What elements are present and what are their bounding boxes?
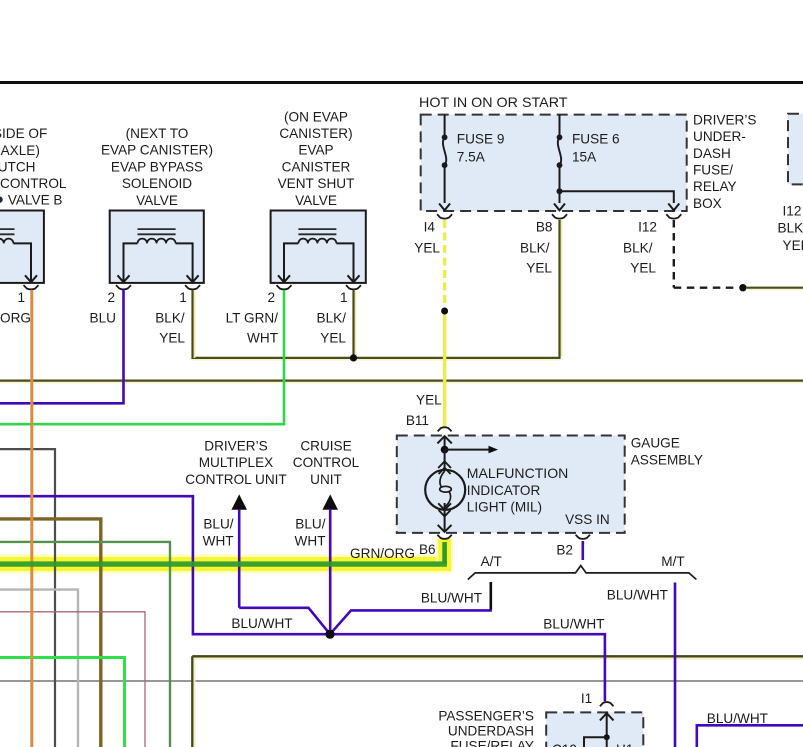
fuse F9 pin arrow at I4 <box>439 204 450 211</box>
solenoid valve box2 pin arrows <box>118 275 130 282</box>
svg-text:1: 1 <box>340 290 348 305</box>
wire GRN dark left corner <box>0 542 170 747</box>
wire BLK/YEL box3 pin1 vertical <box>354 290 356 357</box>
svg-text:7.5A: 7.5A <box>457 150 486 165</box>
svg-text:UTCH: UTCH <box>0 159 36 174</box>
svg-text:YEL: YEL <box>159 331 185 346</box>
svg-text:BLU: BLU <box>90 311 116 326</box>
svg-text:DASH: DASH <box>693 146 731 161</box>
junction at B11 <box>441 446 449 454</box>
svg-text:BLU/: BLU/ <box>203 517 233 532</box>
solenoid valve box2 EVAP BYPASS SOLENOID VALVE <box>110 211 204 283</box>
wire BLU/WHT multiplex vertical <box>238 509 241 608</box>
svg-text:GAUGE: GAUGE <box>631 436 680 451</box>
svg-text:H1: H1 <box>616 742 633 747</box>
svg-text:ORG: ORG <box>0 311 31 326</box>
junction on fuse F6 wire <box>557 188 563 194</box>
connector cup I1 <box>600 702 614 706</box>
wire BLU stub at B2 <box>581 541 584 560</box>
wire ORG from box1 pin1 <box>30 290 33 747</box>
svg-text:UNDERDASH: UNDERDASH <box>448 724 534 739</box>
svg-text:B8: B8 <box>536 220 553 235</box>
connector cup I12 <box>666 214 681 218</box>
solenoid valve box1 label fragments <box>0 126 67 207</box>
solenoid valve box2 connector cups <box>116 285 131 289</box>
A/T branch black stub <box>489 582 492 610</box>
svg-text:ASSEMBLY: ASSEMBLY <box>631 452 703 467</box>
I1 entry arrow <box>606 713 608 737</box>
terminal chevrons below MIL lamp <box>438 503 451 510</box>
bus bar top line <box>0 81 803 84</box>
wire I12 dashed vertical <box>673 220 675 288</box>
solenoid valve box1 pin 1 connector cup <box>24 285 39 289</box>
svg-text:DRIVER’S: DRIVER’S <box>693 112 756 127</box>
wire GRY dark left corner <box>0 449 55 747</box>
svg-text:2: 2 <box>108 290 116 305</box>
svg-text:FUSE/RELAY: FUSE/RELAY <box>450 739 534 747</box>
svg-text:BLU/WHT: BLU/WHT <box>607 588 668 603</box>
junction dot BLU/WHT <box>325 630 334 639</box>
wire BLU/WHT M/T vertical <box>674 583 677 747</box>
svg-text:VALVE: VALVE <box>295 193 337 208</box>
svg-text:YEL: YEL <box>783 238 803 253</box>
svg-text:BLK/: BLK/ <box>778 221 803 236</box>
svg-text:BLU/WHT: BLU/WHT <box>231 616 292 631</box>
svg-text:FUSE/: FUSE/ <box>693 163 733 178</box>
MIL lamp bulb <box>425 470 465 510</box>
svg-text:YEL: YEL <box>526 261 552 276</box>
junction of box3 BLK/YEL with bus <box>350 354 357 361</box>
solenoid valve box1 internal wire <box>13 243 31 281</box>
fuse box name label <box>693 112 756 210</box>
svg-text:HOT IN ON OR START: HOT IN ON OR START <box>419 95 568 110</box>
svg-text:INDICATOR: INDICATOR <box>467 483 541 498</box>
svg-text:BLK/: BLK/ <box>623 241 653 256</box>
solenoid valve box3 label <box>278 109 355 208</box>
svg-text:BLU/WHT: BLU/WHT <box>707 711 768 726</box>
svg-text:VALVE B: VALVE B <box>8 193 63 208</box>
B11 entry arrow <box>444 436 446 449</box>
wire GRN/ORG green core vertical at B6 <box>442 542 447 564</box>
gauge assembly box <box>397 436 625 533</box>
solenoid valve box3 connector cups <box>277 285 292 289</box>
junction inside passenger box <box>604 734 610 740</box>
fuse F9 wire <box>444 115 446 138</box>
svg-text:B2: B2 <box>556 543 573 558</box>
branch wire inside passenger box <box>584 737 607 747</box>
solenoid valve box3 pin arrows <box>278 275 290 282</box>
fuse F6 wire <box>559 115 561 138</box>
svg-text:WHT: WHT <box>295 534 326 549</box>
svg-text:CANISTER: CANISTER <box>282 159 351 174</box>
svg-text:BLK/: BLK/ <box>317 311 347 326</box>
wire WHT light gray left corner <box>0 590 78 747</box>
branch pin arrow at I12 <box>668 204 679 211</box>
svg-text:UNIT: UNIT <box>310 472 342 487</box>
wire I12 dashed horizontal <box>674 287 736 289</box>
wire BLK/YEL bottom corner vertical <box>192 656 194 747</box>
svg-text:BLU/: BLU/ <box>295 517 325 532</box>
svg-text:EVAP BYPASS: EVAP BYPASS <box>111 159 203 174</box>
svg-text:BLU/WHT: BLU/WHT <box>543 617 604 632</box>
svg-text:I12: I12 <box>638 220 657 235</box>
solenoid valve box3 internal wires <box>284 243 298 281</box>
wire BLU/WHT right horizontal from junction down to I1 <box>330 634 605 701</box>
connector cup I4 <box>437 214 452 218</box>
svg-text:CRUISE: CRUISE <box>300 439 351 454</box>
wire BLK/YEL bottom bus horizontal <box>194 658 803 660</box>
connector cup B6 <box>437 535 451 539</box>
svg-text:BLK/: BLK/ <box>520 241 550 256</box>
wire below MIL lamp <box>444 503 446 532</box>
svg-text:YEL: YEL <box>416 393 442 408</box>
connector cup B2 <box>576 535 590 539</box>
wire BLK/YEL stub to right edge <box>746 288 803 290</box>
wire BLU/WHT cruise vertical <box>329 509 332 634</box>
solenoid valve box2 coil winding <box>138 239 176 244</box>
svg-text:I1: I1 <box>581 691 592 706</box>
wire PNK left corner <box>0 612 145 747</box>
wire BLU/WHT left horizontal <box>0 495 194 498</box>
svg-text:CONTROL: CONTROL <box>293 455 360 470</box>
svg-text:15A: 15A <box>572 150 597 165</box>
svg-text:A/T: A/T <box>481 554 502 569</box>
wire BLU/WHT bottom right corner <box>697 725 803 747</box>
wire BLU/WHT bottom horizontal to junction <box>193 633 330 636</box>
fuse F6 pin arrow at B8 <box>554 204 565 211</box>
junction on I12 wire <box>739 284 746 291</box>
fuse F6 element <box>557 134 563 140</box>
svg-text:(ON EVAP: (ON EVAP <box>284 109 348 124</box>
solenoid valve box3 coil winding <box>298 239 336 244</box>
svg-text:BLK/: BLK/ <box>155 311 185 326</box>
solenoid valve box3 coil core <box>298 229 336 234</box>
svg-text:(NEXT TO: (NEXT TO <box>126 126 189 141</box>
svg-text:LT GRN/: LT GRN/ <box>226 311 279 326</box>
svg-text:BOX: BOX <box>693 196 722 211</box>
svg-text:RELAY: RELAY <box>693 179 737 194</box>
solenoid valve box2 coil core <box>138 229 176 234</box>
svg-text:WHT: WHT <box>203 534 234 549</box>
svg-text:MALFUNCTION: MALFUNCTION <box>467 466 569 481</box>
solenoid valve box1 coil core <box>0 229 15 234</box>
wire BRN left corner <box>0 519 101 747</box>
wire BLK/YEL horizontal from valve boxes to B8 <box>192 358 561 360</box>
second underdash fuse box (cut off at right edge) <box>788 114 803 185</box>
wire BLU/WHT diagonal up right from junction <box>330 610 492 634</box>
svg-text:M/T: M/T <box>661 554 684 569</box>
svg-text:B11: B11 <box>406 413 429 428</box>
svg-text:CONTROL UNIT: CONTROL UNIT <box>185 472 286 487</box>
B6 exit arrow <box>438 525 452 532</box>
A/T M/T split bracket <box>468 566 697 580</box>
wire YEL dashed from I4 <box>443 220 447 311</box>
MIL lamp filament <box>440 471 445 487</box>
svg-text:B6: B6 <box>419 542 436 557</box>
GRN/ORG highlight band vertical at B6 <box>436 539 453 565</box>
svg-text:FUSE 6: FUSE 6 <box>572 132 620 147</box>
svg-text:GRN/ORG: GRN/ORG <box>350 546 415 561</box>
svg-text:MULTIPLEX: MULTIPLEX <box>199 455 274 470</box>
solenoid valve box1 coil winding <box>0 239 13 244</box>
passenger box label <box>438 709 534 747</box>
wire BLU/WHT multiplex horizontal + diagonal to junction <box>239 608 330 634</box>
svg-text:1: 1 <box>179 290 187 305</box>
svg-text:YEL: YEL <box>630 261 656 276</box>
solenoid valve box3 EVAP CANISTER VENT SHUT VALVE <box>271 211 366 283</box>
svg-text:CANISTER): CANISTER) <box>279 126 352 141</box>
svg-text:SIDE OF: SIDE OF <box>0 126 47 141</box>
svg-text:2: 2 <box>268 290 276 305</box>
wire LT GRN/WHT from box3 pin2 <box>0 290 284 424</box>
svg-text:BLU/WHT: BLU/WHT <box>421 591 482 606</box>
solenoid valve box2 label <box>101 126 213 208</box>
wire GRN/ORG green core horizontal <box>0 561 447 566</box>
solenoid valve box2 internal wires <box>124 243 138 281</box>
svg-text:CONTROL: CONTROL <box>0 176 67 191</box>
multiplex unit arrow <box>231 494 247 509</box>
fuse F9 element <box>442 134 448 140</box>
svg-text:PASSENGER’S: PASSENGER’S <box>438 709 534 724</box>
connector cup B11 <box>438 427 452 431</box>
svg-text:VALVE: VALVE <box>136 193 178 208</box>
svg-text:C10: C10 <box>552 742 577 747</box>
cruise control unit label <box>293 439 360 487</box>
svg-text:VENT SHUT: VENT SHUT <box>278 176 355 191</box>
wire BLU from box2 pin2 <box>0 290 124 403</box>
wire BLU/WHT left vertical <box>192 496 195 635</box>
svg-text:LIGHT (MIL): LIGHT (MIL) <box>467 500 542 515</box>
branch wire from fuse F6 to I12 <box>560 191 674 203</box>
connector cup B8 <box>552 214 567 218</box>
branch arrow to other circuits <box>445 449 489 451</box>
wire GRY full width <box>0 680 803 682</box>
svg-text:WHT: WHT <box>247 331 278 346</box>
svg-text:DRIVER’S: DRIVER’S <box>204 439 267 454</box>
svg-text:AXLE): AXLE) <box>1 143 40 158</box>
wire from junction to MIL lamp <box>444 450 446 470</box>
solenoid valve box1 pin arrow <box>25 275 37 282</box>
svg-text:UNDER-: UNDER- <box>693 129 746 144</box>
wire YEL solid to B11 <box>443 311 447 426</box>
svg-text:FUSE 9: FUSE 9 <box>457 132 505 147</box>
wire BLK/YEL box2 pin1 vertical <box>193 290 195 359</box>
svg-text:SOLENOID: SOLENOID <box>122 176 192 191</box>
terminal chevrons above MIL lamp <box>438 461 451 468</box>
wire BLK/YEL bus full width <box>0 381 803 383</box>
cruise unit arrow <box>322 494 338 509</box>
svg-text:I12: I12 <box>783 204 802 219</box>
wire BLK/YEL B8 vertical <box>560 220 562 357</box>
wire LT GRN bottom left corner <box>0 658 125 747</box>
svg-text:EVAP: EVAP <box>298 143 333 158</box>
GRN/ORG highlight band horizontal <box>0 555 452 574</box>
svg-text:YEL: YEL <box>414 241 440 256</box>
driver's underdash fuse/relay box <box>421 115 687 211</box>
svg-text:I4: I4 <box>424 220 436 235</box>
solenoid valve box1 (cut off at left edge) <box>0 211 44 283</box>
svg-text:1: 1 <box>18 290 26 305</box>
driver's multiplex control unit label <box>185 439 286 487</box>
passenger's underdash fuse/relay box <box>546 712 643 747</box>
svg-text:EVAP CANISTER): EVAP CANISTER) <box>101 143 213 158</box>
svg-text:VSS IN: VSS IN <box>565 512 610 527</box>
junction on YEL wire <box>441 308 448 315</box>
svg-text:YEL: YEL <box>320 331 346 346</box>
